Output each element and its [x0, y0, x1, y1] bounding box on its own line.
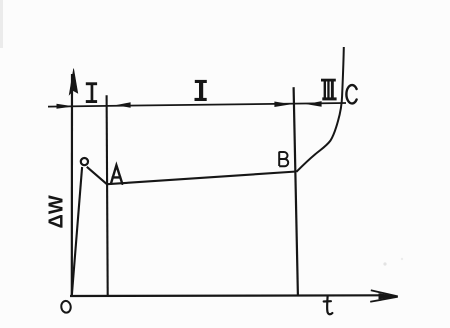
- segment A to B: [107, 172, 296, 185]
- steep initial rise from origin to O: [72, 167, 82, 295]
- curve B to C rising steeply: [296, 47, 343, 172]
- dim arrow left-pointing near separator 1: [115, 102, 130, 107]
- label C: [346, 85, 356, 103]
- y-axis (ΔW axis): [71, 74, 73, 296]
- y-axis arrowhead: [69, 69, 78, 95]
- roman numeral III (region 3): [321, 79, 337, 101]
- separator line 2 (between region II and III, at B): [294, 87, 298, 295]
- roman numeral I (region 1): [86, 82, 97, 103]
- dimension line across top: [48, 103, 346, 107]
- label t on x-axis: [324, 297, 333, 315]
- label B: [279, 152, 288, 167]
- label o at origin: [61, 300, 72, 313]
- dim arrow right-pointing at y-axis: [57, 104, 74, 109]
- circle marker O: [81, 158, 88, 165]
- scan smudge left edge: [0, 0, 3, 48]
- segment O to A: [87, 167, 107, 184]
- dim arrow right-pointing at separator 2: [274, 102, 291, 108]
- separator line 1 (between region I and II): [107, 95, 108, 295]
- dim arrow left-pointing right of separator 2: [306, 101, 321, 107]
- label A: [111, 165, 122, 184]
- svg-text:ΔW: ΔW: [46, 195, 68, 228]
- x-axis arrowhead (open style): [371, 290, 398, 296]
- x-axis (t axis): [70, 294, 385, 297]
- roman numeral I (region 2, bold): [195, 80, 207, 101]
- faint scan specks: [383, 262, 386, 265]
